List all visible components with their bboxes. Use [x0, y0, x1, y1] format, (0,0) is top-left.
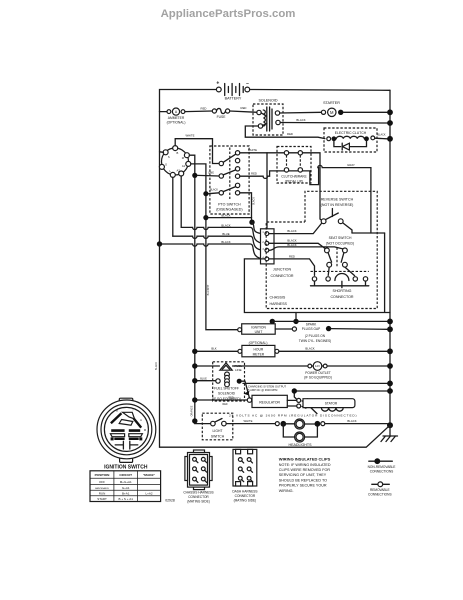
svg-text:CHASSIS: CHASSIS — [270, 296, 286, 300]
wire regulator top to bus — [294, 391, 387, 399]
node starter-bus — [387, 109, 393, 115]
svg-text:RED: RED — [287, 132, 293, 136]
wire PTO row3 right down to junction node — [240, 193, 252, 220]
svg-text:BLACK: BLACK — [155, 362, 158, 371]
ignition switch table — [90, 471, 161, 502]
svg-text:BLK/WHT: BLK/WHT — [207, 284, 210, 295]
svg-text:NON-REMOVABLE: NON-REMOVABLE — [368, 465, 396, 469]
middle BLACK wire y244 to pin4 — [160, 244, 265, 259]
12V power outlet P1 — [304, 362, 332, 380]
svg-text:(OPTIONAL): (OPTIONAL) — [249, 341, 268, 345]
ammeter A (optional) — [160, 108, 186, 125]
svg-text:POWER OUTLET: POWER OUTLET — [305, 371, 331, 375]
node bus y321 — [387, 319, 393, 325]
svg-text:(NOT IN REVERSE): (NOT IN REVERSE) — [321, 203, 354, 207]
clutch/brake switch S3 (pedal up) — [277, 147, 311, 184]
node bus y383 — [387, 381, 393, 387]
dash harness connector (mating side) — [232, 449, 257, 502]
wire junction node wavy to pin1 — [252, 222, 265, 233]
regulator U3 — [252, 395, 287, 407]
wire fuse to solenoid RED — [230, 111, 257, 112]
svg-text:BATTERY: BATTERY — [225, 96, 242, 100]
node junction-connector feed — [249, 220, 254, 225]
svg-text:(DISENGAGED): (DISENGAGED) — [216, 207, 242, 211]
svg-text:BLUE: BLUE — [200, 377, 207, 380]
wire ignition-unit top feed — [295, 313, 297, 322]
svg-text:(2 PLUGS ON: (2 PLUGS ON — [305, 334, 326, 338]
svg-text:CIRCUIT: CIRCUIT — [119, 473, 132, 477]
shorting connector J2 — [311, 271, 369, 299]
svg-text:LIGHT: LIGHT — [213, 429, 223, 433]
wire BLACK to PTO row3 — [209, 192, 220, 195]
svg-text:PTO SWITCH: PTO SWITCH — [218, 202, 241, 206]
svg-text:+: + — [216, 81, 219, 87]
svg-text:LINE: LINE — [235, 368, 242, 372]
svg-text:SEAT SWITCH: SEAT SWITCH — [329, 236, 352, 240]
svg-text:BLACK: BLACK — [210, 189, 218, 192]
node A1-junction2 — [203, 215, 208, 220]
wire key A2 down — [180, 176, 182, 227]
wire white-branch down to junction connector pin1 — [266, 153, 268, 229]
svg-text:5 AMP DC @ 3600 RPM: 5 AMP DC @ 3600 RPM — [248, 388, 278, 392]
fuse F1 — [212, 108, 229, 119]
svg-text:WHITE: WHITE — [243, 419, 252, 423]
wire chassis frame line — [160, 244, 391, 447]
svg-text:BLACK: BLACK — [221, 223, 230, 227]
svg-text:M+G+A1: M+G+A1 — [120, 480, 132, 484]
svg-text:M: M — [330, 110, 334, 115]
svg-text:RED: RED — [289, 255, 295, 259]
svg-text:BLACK: BLACK — [287, 229, 296, 233]
svg-text:METER: METER — [253, 352, 265, 356]
svg-text:28 VOLTS AC @ 3600 RPM (REGULA: 28 VOLTS AC @ 3600 RPM (REGULATOR DISCON… — [229, 413, 357, 417]
svg-text:RED: RED — [241, 106, 247, 110]
node bus y329 — [387, 326, 393, 332]
wire pin4 to shorting connector RED — [269, 259, 315, 276]
svg-text:IGNITION SWITCH: IGNITION SWITCH — [104, 464, 148, 470]
legend non-removable connections — [368, 458, 396, 473]
wire y233 to bus drop — [352, 232, 385, 234]
wire ignition top node to bus — [272, 321, 387, 323]
svg-text:"MAKE": "MAKE" — [143, 473, 156, 477]
node solenoid-bus — [387, 120, 393, 126]
svg-text:RUN: RUN — [99, 491, 106, 495]
svg-text:HARNESS: HARNESS — [270, 302, 288, 306]
node regulator top — [292, 388, 297, 393]
svg-text:G+A1: G+A1 — [122, 486, 130, 490]
svg-text:RED: RED — [201, 107, 207, 111]
svg-text:L+A2: L+A2 — [145, 491, 152, 495]
node left bus y366 — [192, 363, 197, 368]
svg-text:REMOVABLE: REMOVABLE — [370, 488, 390, 492]
node bus y351 — [387, 348, 393, 354]
middle BLACK wire y227 to pin2 — [181, 227, 265, 243]
stator G1 — [287, 398, 355, 414]
svg-text:HOUR: HOUR — [254, 348, 264, 352]
svg-text:TWIN CYL. ENGINES): TWIN CYL. ENGINES) — [299, 339, 331, 343]
wire solenoid BLACK to bus — [280, 122, 387, 125]
solenoid K1 — [253, 98, 283, 135]
wiring insulated clips note — [279, 456, 331, 492]
svg-text:B: B — [177, 151, 179, 155]
svg-text:02928: 02928 — [165, 499, 175, 503]
svg-text:RED: RED — [251, 172, 257, 176]
legend removable connections — [368, 482, 392, 497]
reverse switch S4 (not in reverse) — [321, 198, 354, 233]
node A1-black junction — [203, 191, 208, 196]
svg-text:CONNECTOR: CONNECTOR — [270, 274, 293, 278]
wire RED PTO exit through clutch/brake channel GRAY — [240, 165, 371, 233]
svg-text:RED: RED — [228, 397, 233, 400]
svg-text:OFF: OFF — [99, 480, 105, 484]
A1 line continues down to ignition unit — [206, 196, 238, 330]
svg-text:STARTER: STARTER — [323, 101, 340, 105]
wire regulator left RED — [195, 399, 248, 401]
svg-text:G: G — [165, 162, 167, 166]
svg-text:RED: RED — [222, 403, 227, 406]
wire fuel solenoid BLUE — [195, 380, 216, 382]
svg-text:START: START — [97, 497, 107, 501]
svg-text:PROPERLY SECURE YOUR: PROPERLY SECURE YOUR — [279, 484, 327, 488]
svg-text:FUSE: FUSE — [217, 115, 227, 119]
svg-text:BLACK: BLACK — [287, 243, 296, 247]
svg-text:(IF SO EQUIPPED): (IF SO EQUIPPED) — [304, 376, 332, 380]
svg-text:B+A1: B+A1 — [122, 491, 130, 495]
wire A1-junction2 to junction node — [209, 217, 252, 219]
svg-text:LIME: LIME — [208, 171, 214, 174]
svg-text:SERVICING OF UNIT, THEY: SERVICING OF UNIT, THEY — [279, 473, 327, 477]
svg-text:CHARGING SYSTEM OUTPUT: CHARGING SYSTEM OUTPUT — [248, 384, 286, 388]
wire solenoid to starter — [280, 111, 322, 114]
wire pin1 to reverse switch BLACK — [269, 223, 322, 234]
starter M1 — [321, 101, 387, 117]
svg-text:CONNECTIONS: CONNECTIONS — [368, 492, 392, 496]
svg-text:BLACK: BLACK — [287, 239, 296, 243]
PTO switch S2 (disengaged) — [210, 146, 249, 214]
wire hour meter left BLK — [195, 350, 238, 352]
svg-text:BLK: BLK — [211, 347, 216, 351]
ground (chassis) — [381, 422, 398, 441]
ignition switch face (rear view) — [97, 398, 156, 462]
svg-text:(MATING SIDE): (MATING SIDE) — [234, 498, 257, 502]
svg-text:SHORTING: SHORTING — [333, 289, 352, 293]
svg-text:BLACK: BLACK — [221, 214, 230, 218]
electric clutch L1 — [324, 128, 387, 152]
wire key S to left bus — [160, 151, 164, 154]
svg-text:REVERSE SWITCH: REVERSE SWITCH — [321, 198, 354, 202]
node left bus y351 — [192, 349, 197, 354]
svg-text:BLUE: BLUE — [222, 232, 229, 236]
svg-text:UNIT: UNIT — [255, 330, 263, 334]
chassis harness dashed outline — [266, 191, 377, 308]
svg-text:WIRING INSULATED CLIPS: WIRING INSULATED CLIPS — [279, 456, 331, 461]
wire 12v outlet row — [195, 365, 387, 367]
svg-text:CONNECTOR: CONNECTOR — [330, 295, 353, 299]
wire PTO WHITE exit to clutch/brake — [240, 152, 284, 154]
middle BLUE wire y236 to pin3 — [173, 236, 265, 250]
svg-text:A2: A2 — [177, 168, 181, 172]
svg-text:WHITE: WHITE — [248, 148, 257, 152]
svg-text:AppliancePartsPros.com: AppliancePartsPros.com — [161, 8, 296, 20]
hour meter U2 (optional) — [238, 341, 279, 357]
fuel shutoff solenoid L2 (if so equipped) — [212, 362, 249, 406]
svg-text:JUNCTION: JUNCTION — [273, 268, 292, 272]
wire pin4 left down to y312 run — [244, 233, 390, 313]
wire solenoid bottom RED to electric clutch — [245, 126, 325, 139]
ignition key switch S1 (schematic ring) — [159, 146, 190, 178]
svg-text:SHOULD BE REPLACED TO: SHOULD BE REPLACED TO — [279, 478, 327, 482]
svg-text:SWITCH: SWITCH — [211, 434, 225, 438]
svg-text:A1: A1 — [182, 164, 186, 168]
battery B1 — [216, 81, 249, 101]
node left bus y380 — [192, 378, 197, 383]
svg-text:REGULATOR: REGULATOR — [259, 400, 280, 404]
node bus y391 — [387, 388, 393, 394]
headlights E1 E2 — [275, 419, 390, 447]
svg-text:CLUTCH/BRAKE: CLUTCH/BRAKE — [281, 175, 307, 179]
svg-text:(PEDAL UP): (PEDAL UP) — [285, 179, 303, 183]
wire battery left to ammeter vertical — [160, 90, 217, 245]
svg-text:B: B — [116, 408, 118, 412]
svg-text:WHITE: WHITE — [185, 134, 194, 138]
svg-text:FUEL SHUTOFF: FUEL SHUTOFF — [214, 387, 239, 391]
svg-text:GRAY: GRAY — [347, 163, 355, 167]
svg-text:CHASSIS HARNESS: CHASSIS HARNESS — [183, 490, 213, 494]
svg-text:DASH HARNESS: DASH HARNESS — [232, 489, 257, 493]
wire key L down — [172, 177, 174, 236]
diode D1 in electric clutch — [334, 141, 367, 150]
svg-text:CONNECTIONS: CONNECTIONS — [370, 469, 394, 473]
wire charging system output to bus — [243, 382, 387, 384]
svg-text:S: S — [168, 155, 170, 159]
left bus wire (M line continues down to light switch) — [195, 178, 211, 424]
ignition unit U1 — [238, 324, 276, 334]
node left-bus ground junction — [157, 241, 162, 246]
svg-text:NOTE: IF WIRING INSULATED: NOTE: IF WIRING INSULATED — [279, 463, 331, 467]
chassis harness connector (mating side) — [183, 450, 213, 503]
light switch S6 — [202, 413, 233, 440]
seat switch S5 (not occupied) — [325, 236, 355, 275]
svg-text:CLIPS WERE REMOVED FOR: CLIPS WERE REMOVED FOR — [279, 468, 331, 472]
svg-text:BLACK: BLACK — [347, 419, 356, 423]
node left bus y421 — [192, 418, 197, 423]
svg-text:POSITION: POSITION — [95, 473, 111, 477]
svg-text:STATOR: STATOR — [325, 401, 338, 405]
svg-text:(OPTIONAL): (OPTIONAL) — [167, 121, 186, 125]
node ignition top — [270, 319, 275, 324]
svg-text:(MATING SIDE): (MATING SIDE) — [187, 499, 210, 503]
wire key M down to node — [189, 155, 194, 173]
node clutch-bus — [387, 136, 393, 142]
junction connector J1 — [261, 229, 294, 278]
svg-text:CONNECTOR: CONNECTOR — [188, 495, 209, 499]
svg-text:BLACK: BLACK — [377, 134, 386, 137]
wire hour meter right BLACK to bus — [279, 350, 387, 352]
svg-text:BLACK: BLACK — [221, 240, 230, 244]
wire key A1 down junction line — [191, 164, 206, 192]
svg-text:BLACK: BLACK — [253, 197, 256, 205]
svg-text:SOLENOID: SOLENOID — [258, 98, 277, 102]
wire pin2 to seat switch BLACK — [269, 243, 325, 248]
svg-text:BLACK: BLACK — [305, 347, 314, 351]
svg-text:SOLENOID: SOLENOID — [218, 392, 236, 396]
svg-text:(NOT OCCUPIED): (NOT OCCUPIED) — [326, 241, 354, 245]
wire LIME M-node to PTO — [197, 174, 219, 177]
svg-text:BLACK: BLACK — [296, 118, 305, 122]
svg-text:HEADLIGHTS: HEADLIGHTS — [289, 443, 313, 447]
svg-text:−: − — [246, 81, 249, 87]
svg-text:MAINTENANCE: MAINTENANCE — [95, 487, 109, 490]
annotation arrow charging — [244, 391, 250, 396]
right bus — [389, 90, 391, 425]
spark plugs gap — [275, 323, 387, 343]
svg-text:B + S + A1: B + S + A1 — [119, 497, 134, 501]
svg-text:WIRING.: WIRING. — [279, 489, 294, 493]
svg-text:12V: 12V — [315, 364, 320, 368]
wire clutch/brake to reverse switch — [303, 153, 323, 221]
svg-text:CONNECTOR: CONNECTOR — [235, 494, 256, 498]
wire ammeter to fuse RED — [185, 110, 212, 113]
wire light switch to headlights WHITE — [226, 423, 275, 425]
svg-text:PLUGS GAP: PLUGS GAP — [302, 327, 320, 331]
svg-text:A: A — [140, 418, 142, 422]
svg-text:ORANGE: ORANGE — [190, 405, 193, 416]
node M-junction — [192, 173, 197, 178]
wire pin3 to seat switch BLACK — [269, 247, 343, 250]
svg-text:M: M — [144, 428, 146, 432]
wire key B WHITE to PTO — [175, 139, 219, 164]
node left bus y399 — [192, 397, 197, 402]
wire battery right to right bus top corner — [250, 89, 390, 92]
node bus y366 — [387, 363, 393, 369]
svg-text:ELECTRIC CLUTCH: ELECTRIC CLUTCH — [335, 131, 367, 135]
